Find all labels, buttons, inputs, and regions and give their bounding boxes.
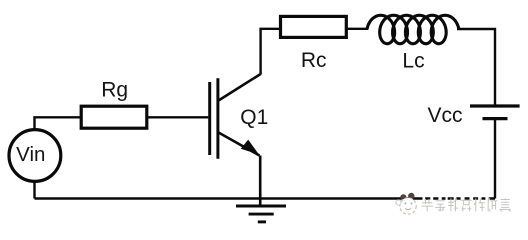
battery Vcc bottom plate: [483, 117, 508, 120]
wire Rc to Lc: [346, 28, 368, 30]
bottom wire: [35, 197, 496, 199]
transistor Q1 emitter lead: [219, 133, 260, 156]
svg-text:Rg: Rg: [101, 78, 128, 101]
wire Vin top to Rg: [35, 117, 81, 129]
svg-text:Vcc: Vcc: [427, 104, 462, 127]
transistor Q1 body bar: [216, 78, 219, 158]
transistor Q1 emitter arrowhead: [241, 140, 259, 155]
resistor Rc: [281, 16, 347, 37]
wire Lc to battery top: [457, 29, 495, 105]
battery Vcc top plate: [470, 104, 520, 107]
watermark text 半导体器件仿真: [421, 198, 511, 212]
watermark logo: [396, 193, 416, 214]
ground bar 3: [258, 220, 266, 223]
transistor Q1 gate bar: [208, 82, 211, 155]
inductor Lc coil: [367, 15, 459, 43]
wire Vin bottom: [33, 182, 35, 199]
wire Rg to gate: [148, 116, 208, 118]
wire battery to bottom: [494, 120, 496, 199]
watermark wire notches: [423, 196, 426, 200]
svg-text:Q1: Q1: [240, 106, 268, 129]
svg-text:Vin: Vin: [16, 143, 45, 166]
voltage source Vin: [9, 130, 61, 182]
resistor Rg: [81, 106, 147, 128]
wire emitter to ground: [259, 156, 262, 207]
ground bar 1: [236, 205, 286, 208]
transistor Q1 collector lead: [219, 74, 261, 101]
svg-text:Rc: Rc: [301, 49, 327, 72]
ground bar 2: [249, 213, 274, 216]
svg-text:Lc: Lc: [402, 50, 424, 73]
wire collector to Rc: [261, 29, 281, 75]
